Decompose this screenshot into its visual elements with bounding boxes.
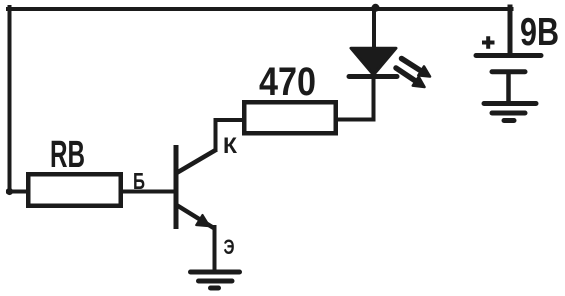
ground under emitter — [191, 272, 240, 288]
wire emitter down to ground — [213, 227, 217, 271]
LED VD1 triangle (anode) — [351, 48, 396, 75]
wire LED cathode down and left to resistor 470 — [338, 77, 374, 120]
wire right vertical to battery — [508, 7, 513, 54]
ground under battery — [484, 104, 536, 121]
node junction dot left — [6, 188, 13, 195]
battery GB1 — [476, 56, 541, 102]
battery minus plate — [492, 69, 525, 74]
wire LED anode from rail — [372, 9, 376, 48]
emitter diagonal — [177, 205, 215, 229]
svg-text:Б: Б — [133, 168, 145, 194]
battery plus plate — [476, 53, 541, 58]
svg-text:Э: Э — [224, 236, 235, 259]
svg-text:470: 470 — [259, 60, 316, 104]
collector diagonal — [177, 150, 217, 174]
transistor VT1 — [176, 145, 217, 229]
wire top rail — [8, 7, 512, 11]
svg-text:К: К — [223, 133, 238, 158]
svg-text:9В: 9В — [520, 11, 559, 54]
base bar — [174, 145, 179, 229]
wire left vertical — [8, 7, 12, 190]
svg-text:RB: RB — [50, 134, 85, 176]
resistor RB — [28, 174, 121, 206]
wire junction dot to RB — [8, 190, 26, 194]
node junction dot on rail above LED — [372, 4, 380, 12]
wire RB to base — [123, 190, 174, 194]
LED light arrow 1 — [402, 59, 431, 77]
LED light arrow 2 — [396, 68, 425, 87]
LED cathode bar — [349, 74, 397, 79]
resistor 470 — [244, 102, 336, 133]
battery stem — [506, 74, 511, 101]
wire collector up to 470 — [216, 120, 243, 150]
emitter arrowhead — [196, 215, 209, 226]
battery plus sign — [482, 36, 495, 49]
